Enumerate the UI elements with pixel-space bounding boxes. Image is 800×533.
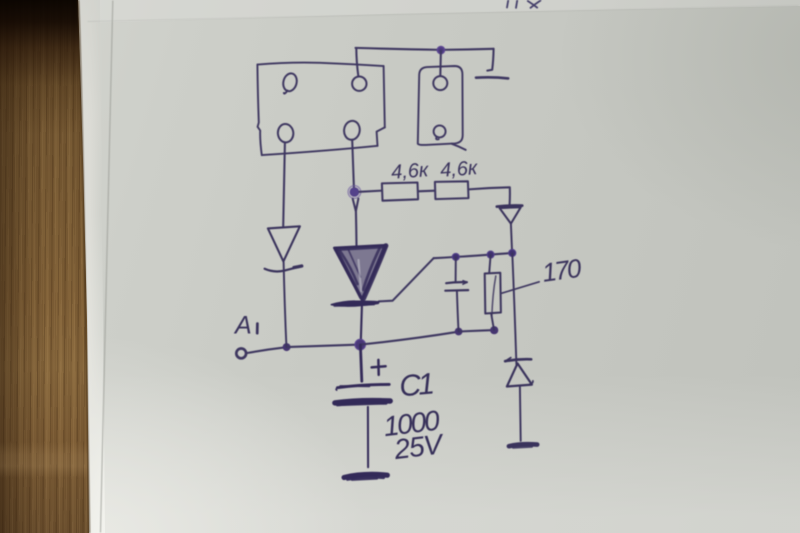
wire: tap node down to thyristor anode (355, 211, 358, 246)
svg-text:4,6к: 4,6к (390, 159, 430, 184)
wire: node row down to capacitor C2 (455, 257, 457, 280)
wire: node A1 down to capacitor C1 (360, 345, 361, 381)
junction: node row at resistor 170 (487, 251, 494, 258)
diode D1 cathode swoosh (265, 266, 302, 271)
junction: top bus node (437, 47, 444, 54)
wire: upper node row (cap/res/diode top) (434, 253, 512, 258)
wire: top supply bus (356, 48, 494, 50)
diode D1 triangle (268, 226, 300, 261)
wire: node A1 right segment (360, 332, 458, 345)
diode D3 triangle (pointing up) (507, 363, 532, 386)
pin 3 of K1 (bottom-left) (277, 123, 294, 143)
thyristor VS1 triangle (heavily inked) (334, 245, 386, 300)
wire: tap node to R1 (359, 191, 381, 192)
leader line from 170 label to R3 (502, 282, 539, 293)
junction: node row right corner (509, 249, 516, 256)
wire: node row down to resistor R3 (489, 255, 490, 273)
wire: node A1 middle segment (287, 345, 361, 348)
svg-text:170: 170 (540, 253, 584, 288)
wire: node corner down to diode D3 (512, 253, 516, 364)
polarity plus sign of C1 (372, 360, 386, 375)
svg-text:C1: C1 (398, 368, 434, 404)
junction: node A1 at left diode (283, 343, 291, 351)
wire: D2 to right node corner (511, 224, 512, 253)
wire: D3 down to ground (519, 387, 522, 441)
ground bar (bottom, bold) (344, 474, 387, 477)
wire: doubled stroke below tap node (353, 199, 359, 211)
squiggle stroke inside R3 (492, 276, 496, 318)
capacitor C1 bottom plate (bold) (335, 401, 390, 403)
connector block K2 (small, rounded) body (418, 66, 463, 145)
svg-text:A: A (233, 312, 252, 340)
wire: D1 down to node A1 (284, 262, 287, 346)
svg-text:4,6к: 4,6к (439, 157, 479, 182)
pin 4 of K1 (bottom-center) (343, 120, 361, 141)
wire: bus drop to small block pin (439, 51, 442, 76)
switch contact S1 (open contact bar) (476, 77, 508, 78)
wire: R1 to R2 (418, 190, 435, 193)
diode D3 cathode bar (505, 359, 531, 361)
connector block K1 (large) body (257, 63, 383, 67)
wire: C2 down to node A1 (457, 291, 459, 331)
wire: bus drop to relay pin (top-right) (356, 48, 358, 76)
junction: node A1 at thyristor (bold) (355, 339, 365, 349)
capacitor C2 top plate (with arrow tip) (446, 282, 467, 283)
wire: thyristor cathode down to node A1 (361, 306, 362, 344)
diode D2 cathode bar (497, 205, 522, 206)
resistor R3 170 body (vertical) (485, 273, 501, 314)
wire: bus right leg down (487, 49, 493, 71)
svg-text:25V: 25V (392, 428, 447, 465)
thyristor VS1 cathode bar (bold) (331, 301, 379, 306)
wire: R2 right to corner and down to D2 (469, 187, 510, 204)
pin 2 of K2 (bottom, with tail) (434, 125, 446, 139)
capacitor C2 bottom plate (445, 289, 468, 292)
paper crease line (left sheet edge) (101, 1, 113, 532)
tail stroke at K2 bottom-right (452, 144, 466, 150)
pin 1 of K2 (top) (433, 76, 447, 90)
wire: thyristor gate lead (379, 258, 434, 301)
label: node name A1 (233, 312, 257, 340)
ground bar (right) (509, 444, 537, 446)
shadow along wood/paper boundary (78, 0, 89, 533)
wire: K1 pin4 down to gate node (352, 140, 354, 187)
resistor R2 4,6k body (435, 181, 469, 199)
pin 1 of K1 (top-left, with tail) (281, 72, 298, 94)
wire: node A1 end segment (459, 330, 495, 331)
junction: node A1 at resistor 170 branch (490, 326, 498, 334)
resistor R1 4,6k body (382, 183, 418, 201)
capacitor C1 top plate (337, 384, 389, 387)
partial handwriting cut at top edge (507, 1, 541, 8)
wire: C1 down to ground (367, 407, 369, 467)
junction: resistor tap node (bold purple dot) (348, 186, 361, 199)
wire: terminal to first junction (246, 347, 286, 353)
diode D2 triangle (500, 207, 521, 223)
wire: K1 pin3 down to diode D1 (283, 143, 285, 227)
junction: node row at capacitor (452, 253, 459, 260)
junction: node A1 at capacitor branch (455, 328, 463, 336)
wire: R3 down to node A1 (491, 314, 494, 330)
pin 2 of K1 (top-right) (352, 77, 366, 91)
under-sheet edge line across top (88, 6, 798, 22)
terminal A1 (open circle) (236, 349, 246, 359)
